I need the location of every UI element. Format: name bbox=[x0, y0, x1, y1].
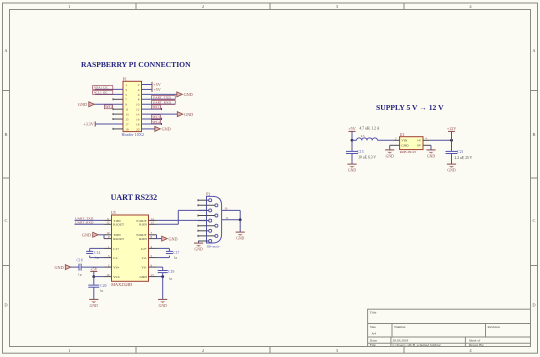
svg-text:Drawn By:: Drawn By: bbox=[469, 343, 484, 347]
wire P2 shield pin 10 bbox=[222, 210, 241, 219]
svg-text:GND: GND bbox=[401, 144, 409, 148]
ground under U5 bbox=[158, 299, 167, 307]
wire U3 0V right down bbox=[430, 145, 432, 150]
port UART_RXD at P1 bbox=[152, 100, 176, 104]
svg-text:+5V: +5V bbox=[154, 87, 161, 92]
svg-text:14: 14 bbox=[136, 113, 140, 117]
zone numbers top bbox=[68, 4, 472, 9]
svg-text:6: 6 bbox=[138, 93, 140, 97]
svg-text:GND: GND bbox=[78, 102, 87, 107]
svg-text:GND: GND bbox=[236, 237, 244, 241]
svg-text:GND: GND bbox=[162, 127, 171, 132]
svg-text:0V: 0V bbox=[417, 144, 422, 148]
svg-text:1μ: 1μ bbox=[100, 289, 104, 293]
svg-text:VS+: VS+ bbox=[113, 266, 119, 270]
svg-text:11: 11 bbox=[225, 216, 228, 220]
svg-text:9: 9 bbox=[125, 103, 127, 107]
svg-text:SEL4: SEL4 bbox=[152, 120, 160, 124]
svg-text:C20: C20 bbox=[100, 284, 106, 288]
svg-text:R1OUT: R1OUT bbox=[113, 223, 125, 227]
ground at P2 shield bbox=[236, 232, 245, 240]
junction at +12V rail bbox=[450, 139, 453, 142]
svg-text:5: 5 bbox=[125, 93, 127, 97]
svg-text:UART_RXD: UART_RXD bbox=[75, 220, 94, 224]
junction at GND pin bbox=[161, 275, 164, 278]
svg-text:GND: GND bbox=[348, 169, 356, 173]
svg-text:10: 10 bbox=[224, 207, 228, 211]
net label UART_TXD at U5 bbox=[75, 217, 105, 221]
svg-text:GND: GND bbox=[184, 112, 193, 117]
svg-text:Number: Number bbox=[394, 325, 406, 329]
border zone ticks left bbox=[3, 91, 10, 266]
power port GND right of P1 pin 20 bbox=[155, 126, 171, 131]
svg-text:12: 12 bbox=[136, 108, 140, 112]
U5 pin numbers bbox=[106, 217, 154, 277]
svg-text:+3.3V: +3.3V bbox=[83, 122, 93, 127]
wire C19 to GND junction bbox=[162, 273, 164, 277]
svg-text:16: 16 bbox=[136, 117, 140, 121]
svg-text:R2OUT: R2OUT bbox=[113, 237, 125, 241]
svg-text:DB-male: DB-male bbox=[207, 244, 220, 248]
svg-text:C1-: C1- bbox=[113, 256, 118, 260]
svg-text:UART_RXD: UART_RXD bbox=[153, 100, 172, 104]
capacitor C14 bbox=[86, 251, 93, 253]
power port +5V pin2 bbox=[152, 82, 161, 87]
wire P2 pin5 to ground bbox=[198, 241, 200, 243]
svg-text:C2-: C2- bbox=[142, 256, 147, 260]
title block frame bbox=[368, 309, 531, 346]
U5 pin stubs right bbox=[149, 220, 157, 276]
wire junction down to ground bbox=[162, 277, 164, 300]
label SEL3 bbox=[152, 115, 161, 119]
svg-text:ROB-09125: ROB-09125 bbox=[400, 150, 417, 154]
wire +5V rail down to C15 bbox=[351, 140, 353, 151]
svg-text:Title: Title bbox=[370, 311, 377, 315]
port SCL1_I2C bbox=[93, 90, 113, 94]
svg-text:GND: GND bbox=[194, 248, 202, 252]
svg-text:C1+: C1+ bbox=[113, 247, 119, 251]
wire +5V junction to VCC bbox=[94, 276, 104, 278]
svg-text:Header 10X2: Header 10X2 bbox=[122, 132, 144, 137]
wire GND pin to junction bbox=[157, 276, 163, 278]
wire bracket C1+ C1- bbox=[90, 248, 104, 257]
svg-text:U5: U5 bbox=[111, 211, 116, 215]
power port GND at R2IN bbox=[162, 236, 178, 241]
svg-text:C21: C21 bbox=[457, 150, 463, 154]
connector P1 pin numbers bbox=[125, 83, 140, 131]
svg-text:7: 7 bbox=[125, 98, 127, 102]
power port GND at T2IN bbox=[82, 232, 98, 237]
svg-text:GND: GND bbox=[159, 304, 167, 308]
ground under C20 bbox=[89, 299, 98, 307]
label SEL1 bbox=[152, 105, 161, 109]
boost module U3 bbox=[390, 136, 431, 149]
svg-text:20: 20 bbox=[136, 127, 140, 131]
svg-text:VIN: VIN bbox=[401, 139, 407, 143]
wire L5 to U3 bbox=[378, 139, 395, 141]
wire pin20 to GND bbox=[142, 128, 155, 130]
svg-text:VS-: VS- bbox=[141, 266, 146, 270]
svg-text:4: 4 bbox=[138, 88, 140, 92]
svg-text:GND: GND bbox=[90, 304, 98, 308]
ground under C15 bbox=[347, 164, 356, 172]
ground under U3 left bbox=[385, 150, 394, 158]
svg-text:Sheet of: Sheet of bbox=[469, 339, 481, 343]
svg-text:GND: GND bbox=[386, 154, 394, 158]
svg-text:8: 8 bbox=[138, 98, 140, 102]
svg-text:SCL1 I2C: SCL1 I2C bbox=[94, 90, 109, 94]
svg-text:+5V: +5V bbox=[348, 126, 355, 131]
op-amp U5 MAX232 body bbox=[112, 215, 149, 281]
svg-text:1μ: 1μ bbox=[174, 255, 178, 259]
svg-text:C:\Users\..\PCB_schema2.SchDoc: C:\Users\..\PCB_schema2.SchDoc bbox=[393, 343, 442, 347]
svg-text:D: D bbox=[532, 303, 535, 308]
wire shield to ground bbox=[239, 220, 241, 232]
svg-text:C: C bbox=[533, 218, 536, 223]
svg-text:B: B bbox=[5, 132, 8, 137]
wire pin19 stub bbox=[113, 128, 123, 130]
svg-text:SUPPLY 5 V → 12 V: SUPPLY 5 V → 12 V bbox=[376, 103, 444, 112]
border zone ticks top bbox=[136, 3, 404, 10]
label SEL4 bbox=[152, 120, 161, 124]
wire pin17 +3.3V bbox=[95, 123, 123, 125]
port UART_TXD at P1 bbox=[152, 95, 176, 99]
svg-text:1: 1 bbox=[68, 348, 70, 353]
svg-text:Revision: Revision bbox=[488, 325, 501, 329]
svg-text:P2: P2 bbox=[206, 192, 210, 196]
ground under U3 right bbox=[426, 150, 435, 158]
svg-text:+12V: +12V bbox=[447, 126, 456, 131]
svg-text:MAX232ID: MAX232ID bbox=[111, 282, 132, 287]
connector P2 DB9 body bbox=[207, 196, 222, 243]
power port GND right of P1 pin 14 bbox=[177, 112, 193, 117]
svg-text:17: 17 bbox=[125, 122, 129, 126]
svg-text:15: 15 bbox=[125, 117, 129, 121]
wire U3 +V to +12V rail bbox=[429, 139, 452, 141]
svg-text:R2IN: R2IN bbox=[139, 237, 147, 241]
wire T1OUT to P2 pin bbox=[157, 219, 207, 221]
svg-text:GND: GND bbox=[427, 154, 435, 158]
P2 pin stubs bbox=[198, 199, 215, 241]
svg-text:A4: A4 bbox=[372, 332, 377, 336]
svg-text:Date:: Date: bbox=[370, 339, 378, 343]
power port +12V bbox=[447, 126, 456, 141]
wire C21 to ground bbox=[451, 154, 453, 164]
ground at P2 pin5 bbox=[194, 243, 203, 251]
wire GND to C18 bbox=[71, 266, 79, 268]
svg-text:19: 19 bbox=[125, 127, 129, 131]
wire pin5 SCL1_I2C bbox=[95, 93, 123, 95]
border zone ticks bottom bbox=[136, 347, 404, 354]
svg-text:Size: Size bbox=[370, 325, 376, 329]
wire GND to T2IN R2OUT bbox=[98, 235, 104, 239]
svg-text:UART RS232: UART RS232 bbox=[111, 193, 157, 202]
svg-text:11: 11 bbox=[125, 108, 129, 112]
svg-text:SEL3: SEL3 bbox=[152, 115, 160, 119]
wire pin9 to GND bbox=[94, 103, 123, 105]
svg-text:18: 18 bbox=[136, 122, 140, 126]
svg-text:P1: P1 bbox=[123, 77, 127, 81]
svg-text:1: 1 bbox=[68, 4, 70, 9]
svg-text:1μ: 1μ bbox=[95, 255, 99, 259]
svg-text:2: 2 bbox=[138, 83, 140, 87]
U5 pin names bbox=[113, 219, 148, 279]
wire junction down to C20 bbox=[93, 277, 95, 286]
power port +5V supply bbox=[348, 126, 355, 141]
border zone ticks right bbox=[531, 91, 538, 266]
svg-text:GND: GND bbox=[139, 275, 147, 279]
svg-text:R1IN: R1IN bbox=[139, 223, 147, 227]
wire pin8 UART_TXD bbox=[142, 98, 176, 100]
svg-text:D: D bbox=[4, 303, 7, 308]
svg-text:VCC: VCC bbox=[113, 275, 121, 279]
wire C20 to ground bbox=[93, 287, 95, 299]
svg-text:SEL1: SEL1 bbox=[152, 105, 160, 109]
wire pin10 UART_RXD bbox=[142, 103, 176, 105]
capacitor C17 bbox=[166, 251, 173, 253]
svg-text:L5: L5 bbox=[361, 134, 365, 138]
wire pin2 +5V bbox=[142, 84, 153, 86]
power port +3.3V bbox=[83, 121, 95, 126]
power port GND right of P1 pin 6 bbox=[177, 92, 193, 97]
wire pin4 +5V bbox=[142, 88, 153, 90]
svg-text:+5V: +5V bbox=[90, 267, 97, 272]
svg-text:C19: C19 bbox=[168, 270, 174, 274]
svg-text:C: C bbox=[5, 218, 8, 223]
svg-text:SDA1 I2C: SDA1 I2C bbox=[94, 86, 110, 90]
svg-text:GND: GND bbox=[55, 265, 64, 270]
wire pin16 SEL3 bbox=[142, 118, 162, 120]
net label UART_RXD at U5 bbox=[75, 220, 105, 224]
junction at VCC bbox=[92, 275, 95, 278]
capacitor C19 bbox=[158, 271, 168, 273]
wire pin13 stub bbox=[113, 113, 123, 115]
connector P1 body bbox=[123, 81, 142, 131]
wire C18 to VS+ bbox=[81, 266, 104, 268]
power port +5V pin4 bbox=[152, 87, 161, 92]
wire +5V to L5 bbox=[352, 139, 357, 141]
wire pin11 stub bbox=[113, 108, 123, 110]
power port GND left of P1 pin 9 bbox=[78, 102, 94, 107]
inductor L5 bbox=[357, 134, 378, 141]
svg-text:C18: C18 bbox=[77, 258, 83, 262]
svg-text:C15: C15 bbox=[358, 150, 364, 154]
P2 pin circles bbox=[209, 199, 218, 243]
wire pin15 stub bbox=[113, 118, 123, 120]
wire VS- to C19 bbox=[157, 267, 163, 270]
capacitor C18 bbox=[79, 264, 81, 271]
svg-text:2: 2 bbox=[202, 348, 204, 353]
svg-text:2: 2 bbox=[202, 4, 204, 9]
capacitor C15 bbox=[346, 151, 358, 153]
wire C15 to ground bbox=[351, 154, 353, 164]
svg-text:1μ: 1μ bbox=[78, 272, 82, 276]
svg-text:File:: File: bbox=[370, 343, 376, 347]
svg-text:13: 13 bbox=[125, 113, 129, 117]
wire bracket C2+ C2- bbox=[157, 248, 170, 257]
svg-text:10: 10 bbox=[136, 103, 140, 107]
svg-text:3: 3 bbox=[125, 88, 127, 92]
svg-text:B: B bbox=[533, 132, 536, 137]
svg-text:C2+: C2+ bbox=[141, 247, 147, 251]
wire pin12 SEL1 bbox=[142, 108, 162, 110]
wire P2 shield pin 11 bbox=[222, 219, 241, 221]
wire U3 GND left down bbox=[389, 145, 391, 150]
svg-text:28.03.2018: 28.03.2018 bbox=[393, 339, 409, 343]
capacitor C21 bbox=[446, 151, 458, 153]
svg-text:SEL2: SEL2 bbox=[105, 105, 113, 109]
svg-text:RASPBERRY PI CONNECTION: RASPBERRY PI CONNECTION bbox=[81, 60, 191, 69]
wire T2OUT R2IN bracket to GND bbox=[157, 235, 162, 239]
U5 pin stubs left bbox=[104, 220, 112, 276]
wire +12V rail down to C21 bbox=[451, 140, 453, 151]
label SEL2 bbox=[104, 105, 113, 109]
wire pin6 to GND bbox=[142, 93, 177, 95]
wire pin14 to GND bbox=[142, 113, 178, 115]
capacitor C20 bbox=[88, 285, 99, 287]
svg-text:GND: GND bbox=[447, 169, 455, 173]
title block text bbox=[370, 311, 500, 348]
power port +5V at VCC bbox=[90, 267, 97, 277]
svg-text:+V: +V bbox=[417, 139, 422, 143]
zone numbers bottom bbox=[68, 348, 472, 353]
wire pin7 stub bbox=[113, 98, 123, 100]
zone letters right bbox=[532, 48, 536, 308]
junction at +5V rail bbox=[351, 139, 354, 142]
svg-text:1: 1 bbox=[125, 83, 127, 87]
svg-text:GND: GND bbox=[169, 236, 178, 241]
svg-text:1μ: 1μ bbox=[169, 276, 173, 280]
power port GND at C18 bbox=[55, 265, 71, 270]
svg-text:U3: U3 bbox=[400, 133, 405, 137]
svg-text:GND: GND bbox=[184, 92, 193, 97]
svg-text:UART_TXD: UART_TXD bbox=[153, 95, 172, 99]
wire R1IN to P2 pin bbox=[157, 210, 207, 224]
wire pin3 SDA1_I2C bbox=[95, 88, 123, 90]
wire pin18 SEL4 bbox=[142, 123, 162, 125]
svg-text:GND: GND bbox=[82, 233, 91, 238]
port SDA1_I2C bbox=[93, 86, 113, 90]
zone letters left bbox=[4, 48, 8, 308]
ground under C21 bbox=[447, 164, 456, 172]
junction shield ground bbox=[239, 218, 242, 221]
